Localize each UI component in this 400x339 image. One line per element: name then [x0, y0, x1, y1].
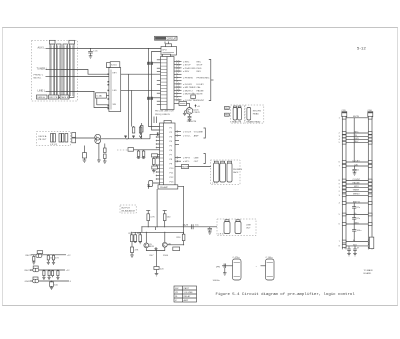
- PB R label: [225, 113, 231, 117]
- transistor Q5: [36, 251, 43, 258]
- wire rail to Q3: [145, 232, 147, 243]
- IC2 label box: [164, 121, 171, 124]
- svg-text:BOARD: BOARD: [364, 272, 372, 275]
- svg-text:TAPE B: TAPE B: [61, 96, 69, 99]
- IC2 pin HP L: [175, 160, 199, 163]
- wire rail to Q4: [164, 232, 166, 242]
- svg-text:CPU: CPU: [162, 50, 167, 52]
- svg-text:VOLUME: VOLUME: [184, 292, 194, 294]
- svg-text:10000u: 10000u: [213, 280, 221, 282]
- svg-text:OUTPUT: OUTPUT: [121, 207, 130, 209]
- playback jack pin tabs A: [234, 106, 241, 108]
- svg-text:CIRCUIT: CIRCUIT: [167, 38, 177, 41]
- svg-text:OUT: OUT: [246, 228, 251, 230]
- svg-text:ERASE HEAD: ERASE HEAD: [247, 121, 261, 124]
- ground between Q3 Q4: [154, 247, 157, 250]
- svg-text:GND: GND: [25, 281, 30, 283]
- svg-text:DECK A: DECK A: [39, 135, 47, 138]
- rung MPX: [342, 186, 372, 189]
- svg-text:COUNT: COUNT: [353, 179, 361, 181]
- resistor R26 right: [167, 232, 185, 245]
- node label PHONO: [34, 75, 62, 80]
- wire vertical drop B: [131, 90, 133, 126]
- svg-text:o HP R: o HP R: [183, 158, 190, 160]
- IC2 left pin stub 2: [156, 140, 160, 142]
- svg-text:TUNER L: TUNER L: [37, 67, 48, 70]
- svg-text:PHONES: PHONES: [233, 169, 243, 171]
- IC1 pin 4: [174, 70, 201, 73]
- IC2 left pin stub 8: [156, 168, 160, 170]
- resistor R16 left of IC2: [153, 157, 160, 171]
- resistor R35: [52, 270, 54, 277]
- rung DOLBY: [342, 160, 372, 163]
- svg-text:MPX: MPX: [354, 186, 359, 188]
- IC2 left pin stub 11: [156, 178, 160, 180]
- oscillator box U2: [161, 44, 177, 55]
- IC1 pin 1: [174, 60, 201, 63]
- IC2 left pin stub 4: [156, 147, 160, 149]
- wire IC3 pin to IC1 (upper): [121, 73, 161, 75]
- switch bottom label row: [37, 95, 70, 99]
- transistor Q4: [162, 242, 171, 247]
- resistor R23: [129, 232, 134, 241]
- tape-in jack pin 5: [65, 134, 68, 143]
- resistor R36: [56, 270, 59, 280]
- resistor R21: [147, 211, 155, 227]
- capacitor C23: [352, 224, 362, 242]
- svg-text:47K: 47K: [135, 250, 139, 252]
- wire emitters join: [146, 247, 165, 250]
- label boxes R15: [152, 154, 158, 157]
- svg-text:8: 8: [339, 180, 340, 182]
- svg-text:DOLBY: DOLBY: [197, 84, 205, 86]
- diode D2 dashed stub: [191, 93, 196, 102]
- power arrow +B: [194, 104, 200, 107]
- rung AMP B: [342, 200, 372, 204]
- headphone jack pin tabs: [214, 161, 231, 163]
- svg-text:AMP: AMP: [184, 299, 189, 302]
- IC1 microcontroller body: [161, 57, 175, 110]
- resistor R28 horizontal: [154, 267, 164, 274]
- IC3 left pin marks: [108, 74, 110, 110]
- svg-text:5: 5: [339, 142, 340, 144]
- svg-text:8: 8: [339, 245, 340, 247]
- wire tuner to IC3: [61, 70, 109, 75]
- svg-text:A970: A970: [149, 245, 155, 248]
- connector pin pair CN4 on IC2 left: [157, 132, 159, 135]
- svg-text:C2878: C2878: [193, 112, 200, 114]
- wire tail down: [156, 251, 158, 267]
- capacitor C25 bottom: [353, 246, 360, 256]
- page left edge: [2, 28, 4, 306]
- svg-text:PB AMP: PB AMP: [160, 186, 169, 189]
- connector CN3: [72, 133, 76, 143]
- connector pin pair CN2: [147, 97, 153, 100]
- wire Q2 emitter down: [98, 143, 100, 160]
- svg-text:3: 3: [339, 195, 340, 197]
- svg-text:VOLUME: VOLUME: [194, 132, 204, 134]
- svg-text:JACK: JACK: [233, 171, 239, 174]
- switch bar S1-3: [63, 44, 68, 98]
- IC2 extra right stub b: [175, 144, 179, 146]
- line-out jack dashed block: [217, 219, 256, 236]
- ground for C14: [223, 273, 227, 275]
- svg-text:L R G: L R G: [218, 234, 224, 236]
- svg-text:2: 2: [339, 191, 340, 193]
- capacitor C24 bottom: [344, 246, 351, 256]
- svg-text:PB MUTE: PB MUTE: [187, 121, 197, 123]
- svg-text:KEY: KEY: [113, 73, 118, 75]
- resistor R37: [50, 281, 59, 290]
- svg-text:L R G: L R G: [212, 183, 218, 185]
- rung GND: [342, 222, 372, 225]
- line-out jack pin 2: [235, 222, 241, 234]
- svg-text:AUX L: AUX L: [38, 46, 46, 49]
- ground for Q2 emitter: [97, 160, 101, 162]
- transistor Q7: [33, 277, 39, 283]
- svg-text:B-: B-: [353, 240, 355, 242]
- svg-text:AMP: AMP: [194, 135, 199, 138]
- ladder bottom note: [364, 269, 373, 275]
- IC2 pin VOL L: [175, 134, 199, 137]
- svg-text:FF.REW.REC: FF.REW.REC: [197, 78, 210, 80]
- power arrow V1: [147, 185, 150, 189]
- IC1 left pin stub 5: [157, 83, 161, 85]
- rung B+: [342, 213, 372, 216]
- wire to headphone jack: [189, 166, 212, 168]
- svg-text:R100: R100: [163, 255, 169, 257]
- svg-text:IC301: IC301: [111, 65, 118, 67]
- page top edge: [2, 27, 398, 29]
- rail inner wire: [353, 118, 355, 162]
- svg-text:o FF.REW: o FF.REW: [183, 78, 194, 80]
- capacitor C22: [352, 215, 361, 225]
- svg-text:PART: PART: [184, 287, 190, 290]
- IC1 pin 3: [174, 67, 202, 70]
- IC3 system controller: [109, 68, 121, 112]
- resistor R24: [134, 232, 137, 241]
- resistor R12 box on line: [128, 148, 160, 152]
- switch bar S1-1: [49, 40, 55, 97]
- svg-text:MEMO: MEMO: [353, 194, 360, 196]
- wire jack block to Q2: [76, 137, 95, 139]
- wire IC3 pin to IC1 (lower): [121, 89, 161, 91]
- resistor R17 under jack block: [83, 146, 87, 163]
- svg-text:RELAY: RELAY: [184, 295, 191, 298]
- svg-text:MD IN L: MD IN L: [34, 77, 43, 79]
- svg-text:(FF): (FF): [216, 267, 220, 269]
- resistor R10 above line: [139, 126, 142, 138]
- capacitor C1: [88, 49, 98, 56]
- svg-text:PB R: PB R: [225, 115, 230, 117]
- svg-text:o HP L: o HP L: [183, 161, 190, 163]
- svg-text:TIMER: TIMER: [353, 190, 360, 192]
- input selector block SW1 (dashed enclosure): [32, 41, 78, 102]
- title CONTROL CIRCUIT: [155, 36, 178, 40]
- IC1 left pin stub 8: [157, 104, 161, 106]
- resistor R32: [52, 255, 59, 265]
- svg-text:C 100u: C 100u: [266, 257, 274, 259]
- resistor R31: [47, 255, 54, 265]
- svg-text:DOLBY: DOLBY: [353, 160, 361, 162]
- svg-text:C 470u: C 470u: [233, 257, 241, 259]
- wire bus to IC1 pin b: [153, 97, 161, 99]
- svg-text:2: 2: [339, 133, 340, 135]
- node label LINE: [38, 89, 62, 92]
- svg-text:4.7K: 4.7K: [150, 217, 155, 219]
- IC1 pin 13: [174, 99, 205, 102]
- IC1 label box: [163, 54, 171, 57]
- svg-text:REV: REV: [197, 71, 202, 73]
- rung FWD: [342, 138, 372, 141]
- line-out jack pin 1: [224, 222, 230, 234]
- svg-text:1: 1: [339, 117, 340, 119]
- wire into IC2 top b: [156, 117, 158, 124]
- page bottom edge: [2, 305, 398, 307]
- rung B-: [342, 240, 372, 243]
- tape-in jack pin 1: [51, 134, 53, 143]
- resistor R22: [163, 211, 171, 227]
- coupling capacitor C12: [191, 224, 199, 229]
- rung SIG: [342, 244, 372, 247]
- capacitor C14 small: [216, 264, 228, 273]
- node label TUNER: [37, 67, 62, 70]
- svg-text:REC: REC: [354, 131, 359, 133]
- IC1 pin 6: [174, 76, 210, 79]
- svg-text:LED: LED: [113, 90, 118, 92]
- svg-text:4: 4: [339, 139, 340, 141]
- resistor R11 chain: [104, 144, 107, 162]
- transistor Q1: [186, 108, 200, 115]
- connector pin pair CN1: [147, 62, 153, 65]
- wire bus to IC1 pin a: [153, 62, 161, 64]
- wire IC2 bottom left down: [156, 189, 158, 227]
- svg-text:SRC PB: SRC PB: [49, 97, 58, 99]
- PB L label: [225, 106, 231, 110]
- supply bar for R21: [146, 210, 150, 212]
- headphone jack dashed block: [211, 160, 241, 185]
- IC2 left pin stub 9: [156, 171, 160, 173]
- svg-text:PB L: PB L: [225, 108, 230, 110]
- rung MEMO: [342, 194, 372, 197]
- IC1 pin 2: [174, 63, 203, 66]
- svg-text:PB OUT: PB OUT: [39, 139, 48, 141]
- svg-text:o VOL L: o VOL L: [183, 136, 192, 138]
- IC2 extra right stub a: [175, 140, 179, 142]
- crystal box X1: [96, 93, 109, 105]
- svg-text:X-TAL: X-TAL: [96, 94, 103, 97]
- resistor R8 left of IC2: [140, 123, 143, 139]
- svg-text:o VOL R: o VOL R: [183, 132, 192, 134]
- switch bar S1-4: [69, 40, 75, 97]
- supply bar for R22: [163, 210, 167, 212]
- output balance dashed label: [120, 205, 136, 213]
- svg-text:PB CON LINE OUT: PB CON LINE OUT: [155, 110, 174, 112]
- resistor R30: [32, 255, 35, 264]
- IC1 left pin stub 7: [157, 100, 161, 102]
- svg-text:7: 7: [339, 166, 340, 168]
- connector rail CN5 left: [342, 110, 347, 250]
- capacitor C4 under Q1: [188, 114, 192, 121]
- ground for R16: [152, 171, 156, 173]
- svg-text:PAUSE: PAUSE: [353, 181, 361, 184]
- svg-text:GND: GND: [354, 222, 359, 224]
- svg-text:1: 1: [339, 187, 340, 189]
- playback jack dashed block A: [231, 105, 245, 123]
- svg-text:o DOLBY: o DOLBY: [183, 84, 193, 86]
- svg-text:VR: VR: [175, 292, 178, 294]
- IC3 label box: [110, 62, 120, 68]
- svg-text:Figure 5.4 Circuit diagram of: Figure 5.4 Circuit diagram of pre-amplif…: [216, 292, 356, 297]
- label box under R16: [152, 166, 158, 169]
- svg-text:LINE L: LINE L: [38, 89, 46, 92]
- wire line-in to xtal box: [61, 92, 109, 108]
- IC2 pin HP R: [175, 156, 199, 159]
- svg-text:AMP B: AMP B: [353, 200, 360, 203]
- IC1 pin 7: [174, 80, 182, 82]
- rec input line 1: [26, 255, 72, 257]
- playback jack dashed block B: [245, 105, 264, 123]
- playback jack pin A2: [238, 108, 242, 121]
- svg-text:6: 6: [339, 162, 340, 164]
- wire phono to IC3: [61, 76, 109, 78]
- IC1 pin 10: [174, 89, 204, 92]
- svg-text:TO MAIN: TO MAIN: [364, 269, 373, 272]
- IC2 left pin stub 6: [156, 157, 160, 159]
- transistor Q2 double circle: [95, 134, 101, 143]
- connector rail CN6 right: [368, 110, 373, 250]
- svg-text:REC: REC: [197, 62, 202, 64]
- svg-text:MUTE: MUTE: [197, 94, 204, 96]
- headphone jack pin J1c: [227, 163, 232, 182]
- svg-text:ON-BALANCE: ON-BALANCE: [121, 210, 135, 213]
- wire amp rail horizontal: [142, 226, 217, 228]
- svg-text:6: 6: [339, 224, 340, 226]
- svg-text:4: 4: [339, 203, 340, 205]
- resistor R14 hanging: [142, 150, 146, 159]
- svg-text:5: 5: [339, 214, 340, 216]
- svg-text:OUT: OUT: [194, 161, 199, 163]
- box D1 at IC1 bottom: [174, 102, 190, 108]
- ground for Q1: [183, 111, 187, 116]
- svg-text:PB EQ LINE IN: PB EQ LINE IN: [155, 114, 170, 116]
- svg-text:COUNT: COUNT: [197, 100, 205, 102]
- svg-text:FWD: FWD: [354, 138, 359, 140]
- IC2 pre-amplifier body: [160, 123, 176, 188]
- resistor R34: [48, 270, 51, 280]
- svg-text:HEAD: HEAD: [253, 113, 259, 116]
- svg-text:PAUSE: PAUSE: [197, 89, 205, 92]
- svg-text:o STOP: o STOP: [183, 65, 191, 67]
- svg-text:LINE: LINE: [246, 225, 251, 227]
- diode arrow on line 2: [132, 135, 134, 137]
- svg-text:3: 3: [339, 136, 340, 138]
- svg-text:5-12: 5-12: [357, 46, 367, 51]
- headphone jack label: [212, 169, 243, 185]
- svg-text:HEAD PB: HEAD PB: [232, 121, 242, 124]
- connector box right rail bottom: [369, 237, 374, 249]
- svg-text:TAPE A: TAPE A: [37, 96, 45, 99]
- IC2 right bracket upper: [204, 128, 206, 138]
- wire title to osc: [165, 42, 168, 44]
- IC1 left pin stub 2: [157, 67, 161, 69]
- svg-text:L R L R: L R L R: [50, 144, 58, 146]
- playback jack pin B1: [247, 108, 251, 121]
- ground under R25: [139, 242, 142, 244]
- capacitor C13 shunt: [208, 227, 212, 235]
- wire data bus vertical 1: [149, 49, 160, 127]
- IC3 top-left wire loop: [106, 63, 110, 68]
- svg-text:PHONO L: PHONO L: [34, 75, 44, 77]
- resistor R13 hanging: [137, 150, 141, 159]
- headphone jack pin J1b: [220, 163, 226, 182]
- rung PB: [342, 135, 372, 138]
- rung CAL: [342, 163, 372, 167]
- bias label box: [173, 247, 180, 251]
- rung COUNT: [342, 179, 372, 182]
- transistor Q3: [144, 243, 155, 248]
- rec input line 2: [25, 270, 71, 272]
- IC2 left pin stub 10: [156, 175, 160, 177]
- ground for R28: [155, 274, 159, 276]
- electrolytic capacitor C15: [228, 257, 242, 280]
- dashed stub line: [117, 149, 128, 151]
- rung MUTE: [342, 116, 372, 119]
- ground under R24: [134, 242, 137, 243]
- wire IC2 bottom right down: [178, 186, 184, 234]
- IC1 pin 5: [174, 73, 182, 75]
- rec input line 3: [25, 281, 72, 283]
- resistor R20 on headphone wire: [175, 164, 189, 168]
- resistor R9 above line: [132, 126, 135, 133]
- svg-text:o REV: o REV: [183, 71, 190, 73]
- IC2 left pin stub 3: [156, 143, 160, 145]
- tape-in jack pin 4: [62, 134, 64, 143]
- svg-text:REC/PB: REC/PB: [253, 111, 262, 113]
- rung REV: [342, 141, 372, 144]
- IC2 pin VOL R: [175, 130, 203, 133]
- tape-in jack pin 2: [53, 134, 55, 143]
- svg-text:FWD: FWD: [197, 68, 202, 70]
- svg-text:STOP: STOP: [197, 65, 203, 67]
- wire AUX bus to CPU: [55, 48, 162, 50]
- svg-text:7: 7: [339, 241, 340, 243]
- IC1 pin 8: [174, 83, 204, 86]
- wire IC2 left bend: [150, 134, 160, 138]
- capacitor C21: [352, 203, 361, 215]
- resistor R25: [137, 232, 142, 241]
- ladder pin numbers left: [339, 117, 340, 247]
- playback jack pin A1: [233, 108, 237, 121]
- IC1 pin 9: [174, 86, 201, 89]
- IC2 bottom label box: [158, 185, 178, 189]
- svg-text:o REC: o REC: [183, 62, 190, 64]
- svg-text:o MUTE 2: o MUTE 2: [183, 90, 193, 92]
- rung PAUSE: [342, 181, 372, 185]
- svg-text:LINE: LINE: [194, 158, 199, 160]
- transistor Q6: [33, 266, 39, 272]
- playback jack B label: [247, 111, 262, 124]
- IC2 left pin stub 7: [156, 164, 160, 166]
- svg-text:o PLAY FWD: o PLAY FWD: [183, 67, 196, 70]
- rung TIMER: [342, 190, 372, 193]
- ground for R11: [103, 161, 107, 163]
- IC1 right bracket: [209, 60, 214, 101]
- diode arrow on line 1: [124, 135, 126, 137]
- IC2 left pin stub 1: [156, 136, 160, 138]
- wire into IC2 top a: [153, 117, 155, 124]
- electrolytic capacitor C16: [256, 257, 275, 280]
